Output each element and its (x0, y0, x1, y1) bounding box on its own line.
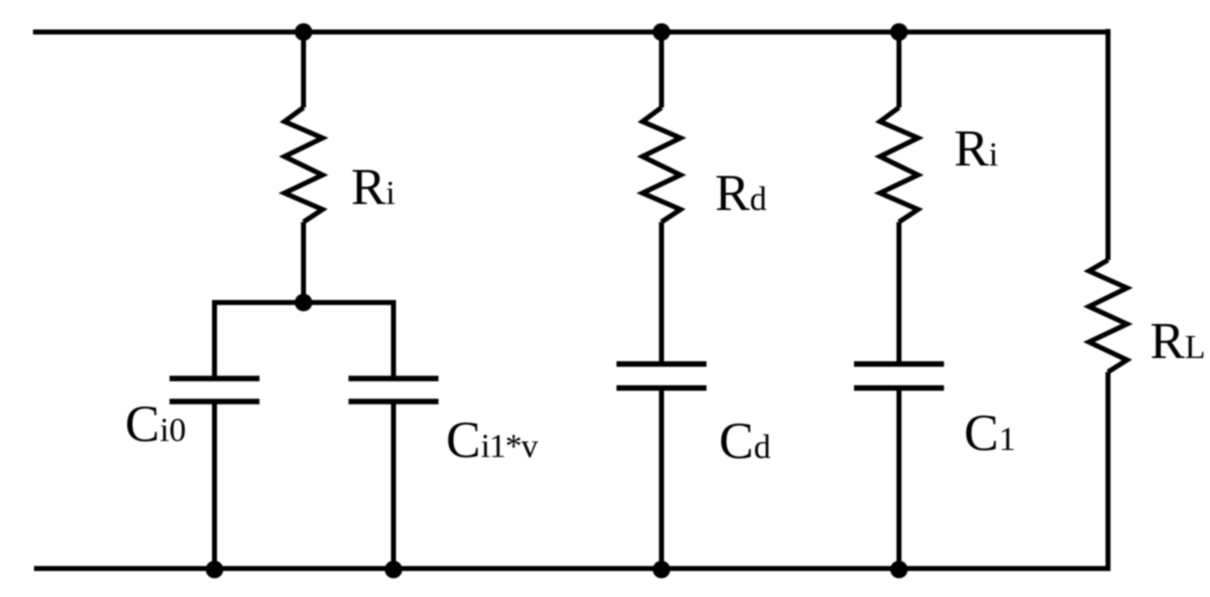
wire node B horizontal (215, 300, 394, 305)
node A top junction branch 1 (295, 23, 313, 41)
wire top bus (33, 30, 1108, 35)
wire lead from Rd to Cd (659, 222, 664, 362)
node B mid junction (295, 294, 313, 312)
node H bottom junction C1 (890, 561, 908, 579)
node G top junction branch 3 (890, 23, 908, 41)
wire lead from top bus to Ri branch3 (897, 32, 902, 108)
wire from Ci0 to bottom bus (212, 404, 217, 569)
capacitor Cd (617, 364, 707, 388)
resistor RL (1089, 260, 1127, 372)
wire right edge top segment (1106, 29, 1111, 260)
svg-text:Ri: Ri (351, 159, 395, 216)
wire right stub down to Ci1*v (391, 300, 396, 376)
resistor Ri branch3 (880, 108, 918, 223)
svg-text:Ri: Ri (954, 121, 998, 178)
svg-text:C1: C1 (964, 405, 1016, 462)
wire left stub down to Ci0 (212, 300, 217, 376)
capacitor Ci1*v (349, 379, 439, 402)
wire bottom bus (34, 566, 1108, 571)
wire lead from Ri branch3 to C1 (897, 222, 902, 362)
resistor Rd (643, 108, 681, 223)
wire from C1 to bottom bus (897, 391, 902, 569)
svg-text:Rd: Rd (715, 165, 767, 222)
capacitor C1 (854, 364, 944, 388)
wire lead from R1 to node B (301, 222, 306, 303)
svg-text:RL: RL (1150, 313, 1205, 370)
svg-text:Ci1*v: Ci1*v (446, 412, 538, 469)
wire lead from top bus to Rd (659, 32, 664, 108)
node F bottom junction Cd (653, 561, 671, 579)
node C bottom junction Ci0 (206, 561, 224, 579)
wire lead from top bus to R1 (301, 32, 306, 108)
wire from Cd to bottom bus (659, 391, 664, 569)
node E top junction branch 2 (653, 23, 671, 41)
resistor R1 (Ri) (285, 108, 323, 223)
capacitor Ci0 (170, 379, 260, 402)
svg-text:Cd: Cd (719, 413, 771, 470)
node D bottom junction Ci1*v (385, 561, 403, 579)
wire from Ci1*v to bottom bus (391, 404, 396, 569)
svg-text:Ci0: Ci0 (125, 396, 186, 453)
wire right edge bottom segment (1106, 372, 1111, 571)
